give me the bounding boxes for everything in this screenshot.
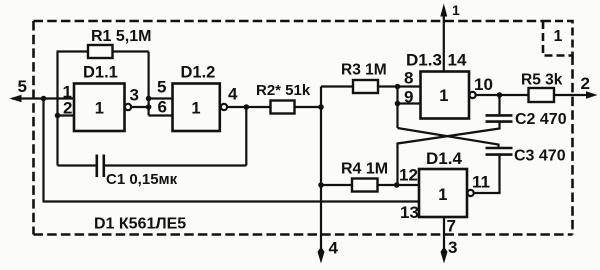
op-amp gate D1.1: [74, 84, 125, 132]
wire left vertical to pin13 bus: [42, 99, 44, 202]
svg-text:R3 1M: R3 1M: [341, 62, 387, 79]
node pin 9 junction: [395, 101, 401, 107]
svg-text:R4 1M: R4 1M: [341, 161, 388, 178]
gate D1.3 output inversion circle: [470, 92, 476, 98]
node feedback upper junction: [146, 96, 152, 102]
wire C1 right vertical: [245, 107, 247, 166]
wire D1.1 output: [131, 106, 148, 108]
node pin 12 junction: [394, 182, 400, 188]
node pin 2 junction: [55, 113, 61, 119]
input arrow 5: [10, 95, 22, 102]
svg-text:D1 К561ЛЕ5: D1 К561ЛЕ5: [94, 216, 186, 233]
node pin 8 junction: [395, 84, 401, 90]
wire C1 to D1.2 output: [105, 164, 246, 166]
wire R4 right / pin 12: [378, 184, 420, 186]
wire R1 right: [113, 50, 149, 52]
wire R2 right: [295, 106, 322, 108]
resistor R3: [353, 80, 378, 93]
wire pin 6: [149, 114, 173, 116]
svg-text:13: 13: [400, 203, 419, 222]
wire R3 right / pin 8: [378, 85, 421, 87]
wire cross diagonal C2 to pin 12: [398, 123, 500, 185]
gate D1.2 output inversion circle: [221, 104, 227, 110]
svg-text:D1.3: D1.3: [406, 51, 442, 70]
svg-text:R5 3k: R5 3k: [521, 72, 563, 89]
wire center vertical bus: [320, 87, 322, 253]
svg-text:7: 7: [447, 217, 456, 236]
IC package dashed boundary D1: [34, 21, 573, 235]
resistor R1: [88, 45, 113, 58]
svg-text:3: 3: [130, 86, 139, 105]
wire input 5 horizontal: [12, 97, 74, 99]
svg-text:1: 1: [438, 186, 447, 204]
wire C1 horizontal: [58, 164, 96, 166]
svg-text:2: 2: [63, 99, 72, 118]
svg-text:D1.2: D1.2: [181, 64, 216, 82]
wire D1.2 output: [227, 106, 270, 108]
svg-text:2: 2: [581, 74, 590, 93]
power arrow 1: [440, 4, 447, 17]
svg-text:C1 0,15мк: C1 0,15мк: [106, 171, 178, 188]
wire R1/C1 left vertical: [56, 52, 58, 166]
resistor R4: [352, 179, 378, 192]
svg-text:5: 5: [18, 77, 27, 96]
wire R4 row: [321, 184, 352, 186]
wire pin 14 vertical: [443, 15, 445, 72]
output arrow 3: [441, 247, 448, 264]
node C1 right junction: [244, 104, 250, 110]
svg-text:1: 1: [439, 87, 448, 105]
svg-text:D1.1: D1.1: [83, 64, 118, 82]
svg-text:3: 3: [448, 238, 457, 257]
wire pin 2: [58, 114, 75, 116]
wire pin 13 long horizontal: [43, 200, 420, 202]
svg-text:11: 11: [472, 173, 490, 192]
svg-text:1: 1: [554, 28, 563, 45]
op-amp gate D1.4: [419, 169, 467, 217]
wire feedback right vertical: [148, 52, 150, 116]
capacitor C1: [96, 155, 99, 178]
svg-text:6: 6: [158, 98, 167, 117]
resistor R5: [529, 88, 555, 102]
svg-text:C2 470: C2 470: [515, 111, 567, 128]
wire D1.3 output: [476, 94, 529, 96]
wire pin8-pin9 vertical down to cross: [396, 87, 398, 129]
gate D1.1 output inversion circle: [125, 104, 131, 110]
wire pin 5: [149, 97, 173, 99]
svg-text:8: 8: [404, 69, 413, 88]
resistor R2: [271, 101, 295, 114]
wire C3 bottom to pin 11: [474, 156, 500, 193]
svg-text:1: 1: [452, 2, 460, 18]
svg-text:1: 1: [95, 100, 104, 118]
wire R5 right: [554, 94, 587, 96]
corner dashed box node 1: [543, 21, 573, 56]
wire cross diagonal to C3: [398, 128, 499, 148]
output arrow 4: [318, 247, 325, 264]
svg-text:R2* 51k: R2* 51k: [256, 82, 311, 99]
svg-text:C3 470: C3 470: [514, 148, 566, 165]
node input junction: [41, 96, 47, 102]
svg-text:R1 5,1M: R1 5,1M: [91, 28, 151, 45]
wire pin 9: [398, 102, 421, 104]
svg-text:4: 4: [329, 239, 339, 258]
wire pin 7 vertical: [443, 217, 445, 252]
node R4 left junction: [318, 182, 324, 188]
gate D1.4 output inversion circle: [468, 190, 474, 196]
wire R3 left: [321, 85, 353, 87]
op-amp gate D1.3: [421, 72, 470, 119]
capacitor C2: [486, 114, 513, 117]
op-amp gate D1.2: [173, 84, 220, 132]
output arrow 2: [586, 91, 598, 98]
svg-text:14: 14: [448, 51, 467, 70]
wire C2 vertical: [498, 95, 500, 114]
svg-text:10: 10: [474, 75, 493, 94]
node R2 output junction: [318, 104, 324, 110]
svg-text:12: 12: [399, 166, 418, 185]
svg-text:5: 5: [157, 78, 166, 97]
node feedback lower junction: [146, 104, 152, 110]
svg-text:9: 9: [404, 88, 413, 107]
wire R1 left: [57, 50, 89, 52]
svg-text:4: 4: [228, 85, 238, 104]
svg-text:1: 1: [191, 100, 200, 118]
capacitor C3: [486, 147, 513, 150]
node C2 junction: [497, 92, 503, 98]
svg-text:D1.4: D1.4: [426, 149, 462, 168]
